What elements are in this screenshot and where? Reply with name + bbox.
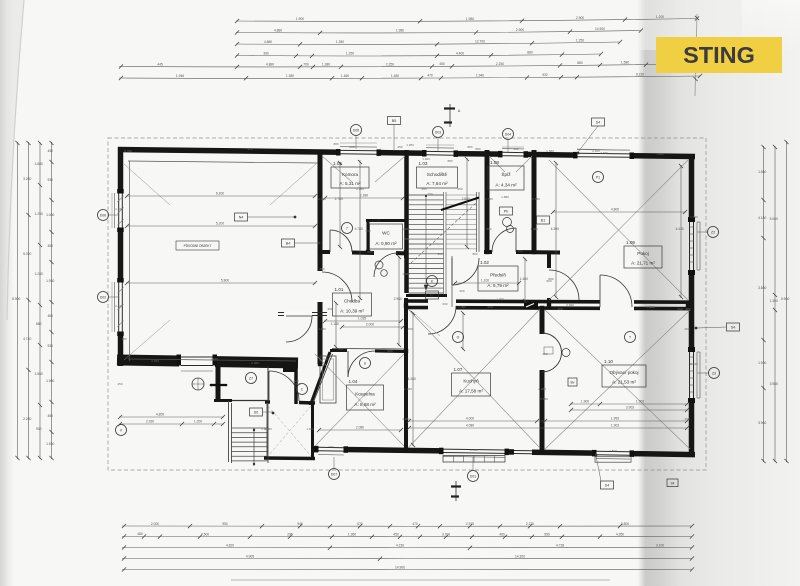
svg-text:2.000: 2.000 [366,323,374,327]
svg-text:1.900: 1.900 [296,17,304,21]
svg-text:S4: S4 [731,325,735,329]
svg-text:880: 880 [447,159,452,163]
svg-text:450: 450 [542,352,547,356]
svg-text:700: 700 [303,63,309,67]
svg-text:1.06: 1.06 [372,218,381,223]
svg-text:450: 450 [121,337,126,341]
svg-text:1.480: 1.480 [402,227,410,231]
svg-text:Obývací pokoj: Obývací pokoj [609,370,638,375]
svg-text:S4: S4 [605,483,609,487]
svg-text:14.300: 14.300 [515,554,525,558]
svg-text:AL: AL [430,293,434,297]
svg-text:Bv: Bv [571,381,575,385]
svg-text:450: 450 [487,305,492,309]
svg-text:Předsíň: Předsíň [490,273,506,278]
svg-text:14.900: 14.900 [395,565,405,569]
svg-text:4.150: 4.150 [396,543,404,547]
svg-text:Špíž: Špíž [501,171,511,177]
svg-text:1.980: 1.980 [46,379,54,383]
svg-text:1.480: 1.480 [318,327,326,331]
svg-text:1.200: 1.200 [194,420,202,424]
svg-text:1.580: 1.580 [546,149,554,153]
svg-text:1.460: 1.460 [341,74,349,78]
svg-text:5.200: 5.200 [216,222,224,226]
svg-text:S0: S0 [254,410,258,414]
svg-text:4.300: 4.300 [551,227,559,231]
svg-text:A: 5,31 m²: A: 5,31 m² [339,181,361,186]
svg-text:1.600: 1.600 [306,427,314,431]
svg-text:1.035: 1.035 [358,317,366,321]
svg-text:1.930: 1.930 [115,207,123,211]
svg-text:930: 930 [47,344,53,348]
svg-text:A: 17,58 m²: A: 17,58 m² [459,389,483,394]
svg-text:1.350: 1.350 [770,299,778,303]
svg-text:2.280: 2.280 [23,417,31,421]
svg-text:880: 880 [349,145,354,149]
svg-text:8.800: 8.800 [621,522,629,526]
svg-text:2.900: 2.900 [576,16,584,20]
svg-text:1.580: 1.580 [35,372,43,376]
svg-text:450: 450 [677,307,682,311]
svg-text:1.180: 1.180 [402,272,410,276]
svg-text:4.880: 4.880 [266,63,274,67]
svg-text:930: 930 [47,178,53,182]
svg-text:450: 450 [47,314,53,318]
svg-text:Kuchyň: Kuchyň [463,379,479,384]
svg-text:1.980: 1.980 [396,29,404,33]
svg-text:1.250: 1.250 [576,38,584,42]
svg-text:670: 670 [357,522,363,526]
svg-text:4.430: 4.430 [676,227,684,231]
svg-text:600: 600 [442,302,447,306]
svg-text:A: 21,71 m²: A: 21,71 m² [631,261,655,266]
svg-text:Pb: Pb [504,209,508,213]
svg-text:8.900: 8.900 [12,297,20,301]
svg-text:1.280: 1.280 [336,40,344,44]
svg-text:450: 450 [439,62,445,66]
svg-text:1.360: 1.360 [348,532,356,536]
svg-text:1.200: 1.200 [210,357,218,361]
svg-text:900: 900 [387,349,392,353]
svg-text:4.800: 4.800 [611,208,619,212]
svg-text:740: 740 [649,305,654,309]
svg-text:1.500: 1.500 [609,449,617,453]
svg-text:1.280: 1.280 [35,272,43,276]
svg-text:Z7: Z7 [249,376,253,380]
svg-text:1.920: 1.920 [422,157,430,161]
svg-text:5.080: 5.080 [770,217,778,221]
svg-text:2.280: 2.280 [356,187,364,191]
svg-text:3.700: 3.700 [442,532,450,536]
svg-text:4.000: 4.000 [466,417,474,421]
svg-text:D07: D07 [331,472,337,476]
svg-text:350: 350 [437,252,442,256]
svg-text:1.100: 1.100 [481,279,489,283]
svg-text:1.250: 1.250 [346,52,354,56]
svg-text:2.680: 2.680 [532,197,540,201]
svg-text:1.940: 1.940 [476,74,484,78]
svg-text:820: 820 [293,379,298,383]
svg-text:4.740: 4.740 [23,337,31,341]
svg-text:1.200: 1.200 [656,15,664,19]
svg-text:3.680: 3.680 [540,397,548,401]
svg-text:2.400: 2.400 [566,303,574,307]
svg-text:450: 450 [421,187,426,191]
svg-text:A: 0,90 m²: A: 0,90 m² [375,241,397,246]
svg-text:2.280: 2.280 [538,387,546,391]
svg-text:1.10: 1.10 [604,359,613,364]
svg-text:1.080: 1.080 [458,305,466,309]
svg-text:Pokoj: Pokoj [637,251,649,256]
svg-text:4.880: 4.880 [264,40,272,44]
svg-text:470: 470 [427,74,433,78]
svg-text:780: 780 [328,445,333,449]
svg-text:Z2: Z2 [711,230,715,234]
svg-text:1.250: 1.250 [35,212,43,216]
svg-text:1.903: 1.903 [636,400,644,404]
svg-text:A: 8,68 m²: A: 8,68 m² [354,402,376,407]
svg-text:D01: D01 [470,474,476,478]
svg-text:1.993: 1.993 [611,417,619,421]
svg-text:1.180: 1.180 [264,427,272,431]
svg-text:880: 880 [486,227,491,231]
svg-text:930: 930 [36,427,42,431]
svg-text:380: 380 [403,237,408,241]
svg-text:4.800: 4.800 [156,413,164,417]
svg-text:880: 880 [577,61,583,65]
svg-text:2.880: 2.880 [462,197,470,201]
svg-text:4.728: 4.728 [556,543,564,547]
svg-text:2.250: 2.250 [386,62,394,66]
svg-text:2.080: 2.080 [318,197,326,201]
svg-text:2.975: 2.975 [466,522,474,526]
svg-text:880: 880 [685,307,690,311]
svg-text:1.02: 1.02 [480,260,489,265]
svg-text:450: 450 [513,147,518,151]
svg-text:1.380: 1.380 [322,63,330,67]
svg-text:4.280: 4.280 [408,377,416,381]
svg-text:1.280: 1.280 [406,143,414,147]
svg-text:6.780: 6.780 [124,149,132,153]
svg-text:450: 450 [397,145,402,149]
svg-text:2.250: 2.250 [496,62,504,66]
svg-text:450: 450 [47,149,53,153]
svg-text:450: 450 [557,307,562,311]
svg-text:390: 390 [263,51,269,55]
svg-text:480: 480 [137,532,143,536]
svg-text:3.960: 3.960 [758,421,766,425]
svg-text:1.903: 1.903 [611,424,619,428]
svg-text:2.980: 2.980 [394,297,402,301]
svg-text:A: 5,79 m²: A: 5,79 m² [487,283,509,288]
svg-text:1.880: 1.880 [35,162,43,166]
svg-text:880: 880 [467,145,472,149]
svg-text:1.08: 1.08 [490,160,499,165]
svg-text:4.950: 4.950 [616,532,624,536]
svg-text:Komora: Komora [342,172,359,177]
svg-text:2.330: 2.330 [146,420,154,424]
svg-text:3.985: 3.985 [770,382,778,386]
svg-text:460: 460 [684,327,689,331]
svg-text:460: 460 [684,417,689,421]
svg-text:2.400: 2.400 [600,151,608,155]
svg-text:950: 950 [222,522,228,526]
svg-text:1.01: 1.01 [335,287,344,292]
svg-text:2.220: 2.220 [526,522,534,526]
svg-text:600: 600 [367,250,372,254]
svg-text:1.03: 1.03 [419,161,428,166]
svg-text:1.946: 1.946 [176,74,184,78]
svg-text:880: 880 [333,142,338,146]
svg-text:460: 460 [499,532,505,536]
svg-text:3.580: 3.580 [758,286,766,290]
svg-text:A: 4,34 m²: A: 4,34 m² [495,182,517,187]
svg-text:950: 950 [544,532,550,536]
svg-text:1.480: 1.480 [391,74,399,78]
svg-text:1.880: 1.880 [501,195,509,199]
svg-text:2.430: 2.430 [690,362,698,366]
svg-text:2.000: 2.000 [151,522,159,526]
svg-text:800: 800 [546,279,551,283]
svg-text:Z3: Z3 [712,371,716,375]
svg-text:2.280: 2.280 [360,194,368,198]
svg-text:5.800: 5.800 [221,279,229,283]
svg-text:3.903: 3.903 [626,406,634,410]
svg-text:D03: D03 [435,130,441,134]
svg-text:4.400: 4.400 [456,51,464,55]
svg-text:1.930: 1.930 [690,215,698,219]
svg-text:1.980: 1.980 [466,17,474,21]
svg-text:3.100: 3.100 [656,543,664,547]
svg-text:932: 932 [542,73,548,77]
svg-text:O: O [457,335,460,339]
svg-text:3.280: 3.280 [23,177,31,181]
svg-text:7: 7 [346,226,348,230]
svg-text:1.200: 1.200 [496,297,504,301]
svg-text:4.820: 4.820 [226,543,234,547]
svg-text:PŮVODNÍ OBJEKT: PŮVODNÍ OBJEKT [184,243,212,248]
svg-text:Schodiště: Schodiště [427,172,448,177]
svg-text:4.905: 4.905 [246,554,254,558]
svg-text:D06: D06 [100,213,106,217]
svg-text:900: 900 [365,229,370,233]
svg-text:T: T [629,335,631,339]
svg-text:900: 900 [459,289,464,293]
svg-text:2.430: 2.430 [115,304,123,308]
svg-text:1.930: 1.930 [46,279,54,283]
svg-text:2.280: 2.280 [251,361,259,365]
svg-text:450: 450 [47,244,53,248]
svg-text:1.09: 1.09 [626,240,635,245]
svg-text:1.580: 1.580 [621,61,629,65]
svg-text:4.080: 4.080 [466,424,474,428]
svg-text:445: 445 [157,62,163,66]
svg-text:1.080: 1.080 [46,213,54,217]
svg-text:B4: B4 [286,241,290,245]
svg-text:2.500: 2.500 [201,532,209,536]
svg-text:700: 700 [337,347,342,351]
svg-text:5.320: 5.320 [23,252,31,256]
svg-text:D04: D04 [505,132,511,136]
svg-text:S4: S4 [596,120,600,124]
svg-text:450: 450 [247,147,252,151]
svg-text:450: 450 [327,307,332,311]
svg-text:680: 680 [36,322,42,326]
svg-text:450: 450 [393,532,399,536]
svg-text:4.180: 4.180 [758,216,766,220]
svg-text:D02: D02 [100,295,106,299]
svg-text:880: 880 [527,51,533,55]
svg-text:6.200: 6.200 [216,192,224,196]
svg-text:A: 21,53 m²: A: 21,53 m² [612,380,636,385]
svg-text:2.680: 2.680 [402,417,410,421]
svg-text:945: 945 [297,522,303,526]
svg-text:450: 450 [407,327,412,331]
svg-text:1.380: 1.380 [286,74,294,78]
svg-text:2.480: 2.480 [404,387,412,391]
svg-text:P1: P1 [596,175,600,179]
svg-text:N4: N4 [239,215,244,219]
svg-text:295: 295 [287,532,293,536]
svg-text:Chodba: Chodba [344,299,361,304]
svg-text:8.960: 8.960 [781,297,789,301]
svg-text:WC: WC [382,231,390,236]
svg-text:450: 450 [117,382,122,386]
svg-text:9.220: 9.220 [636,72,644,76]
svg-text:1.780: 1.780 [485,197,493,201]
svg-text:S4: S4 [670,482,674,486]
svg-text:1.07: 1.07 [454,367,463,372]
svg-text:B5: B5 [392,119,396,123]
svg-text:A: 10,39 m²: A: 10,39 m² [340,309,364,314]
svg-text:250: 250 [517,249,522,253]
svg-text:250: 250 [427,192,432,196]
svg-text:Koupelna: Koupelna [355,392,375,397]
svg-text:A: 7,64 m²: A: 7,64 m² [426,181,448,186]
svg-text:D05: D05 [353,128,359,132]
svg-text:2.080: 2.080 [356,426,364,430]
svg-text:1.04: 1.04 [349,379,358,384]
svg-text:1.080: 1.080 [530,227,538,231]
svg-text:2.330: 2.330 [151,359,159,363]
svg-text:450: 450 [457,187,462,191]
svg-text:12.700: 12.700 [475,40,485,44]
svg-text:1.180: 1.180 [331,322,339,326]
svg-text:880: 880 [472,252,477,256]
svg-text:1.530: 1.530 [46,442,54,446]
svg-text:880: 880 [319,267,324,271]
svg-text:2.780: 2.780 [335,197,343,201]
svg-text:1.930: 1.930 [758,361,766,365]
svg-text:4.880: 4.880 [274,29,282,33]
svg-text:STING: STING [683,42,755,68]
svg-text:2.400: 2.400 [470,448,478,452]
svg-text:880: 880 [475,147,480,151]
svg-text:1.880: 1.880 [758,170,766,174]
svg-text:2.900: 2.900 [516,28,524,32]
svg-text:1.480: 1.480 [656,152,664,156]
svg-text:1.480: 1.480 [520,277,528,281]
svg-text:1.900: 1.900 [581,400,589,404]
svg-text:B1: B1 [541,218,545,222]
svg-text:14.900: 14.900 [595,27,605,31]
svg-text:4.780: 4.780 [355,227,363,231]
svg-text:1.05: 1.05 [333,161,342,166]
svg-text:470: 470 [412,522,418,526]
svg-text:450: 450 [47,414,53,418]
